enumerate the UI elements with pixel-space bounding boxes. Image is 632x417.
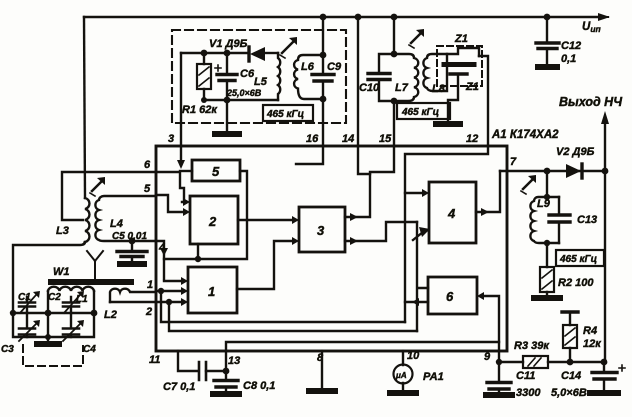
svg-text:Z1: Z1 xyxy=(454,33,468,45)
svg-text:2: 2 xyxy=(208,214,217,229)
svg-text:R1 62к: R1 62к xyxy=(182,104,218,116)
svg-text:9: 9 xyxy=(484,351,491,363)
node rail-L7 xyxy=(391,14,398,21)
piezo Z1 dashed box xyxy=(437,46,482,86)
ground below C12 xyxy=(538,64,557,70)
gang link dashed xyxy=(23,345,83,366)
ground below Z1 xyxy=(436,121,460,127)
svg-text:2: 2 xyxy=(145,306,152,318)
inductor L8 xyxy=(423,54,447,91)
capacitor C7 xyxy=(199,362,206,380)
ground below PA1 xyxy=(390,390,416,396)
ground below C8 xyxy=(213,391,239,397)
svg-text:6: 6 xyxy=(446,289,454,304)
resistor R4 xyxy=(562,310,578,313)
meter PA1 xyxy=(402,351,404,391)
block 6 xyxy=(428,277,477,314)
svg-text:L1: L1 xyxy=(76,294,88,305)
wire block1 to block3 xyxy=(237,241,292,289)
capacitor C11 xyxy=(498,362,500,394)
block 5 xyxy=(192,160,240,181)
465 kHz box B xyxy=(397,103,450,119)
wire L1 right leg xyxy=(93,291,95,313)
svg-text:L6: L6 xyxy=(301,61,315,73)
wire block2 bottom stub xyxy=(197,244,199,259)
wire output arrow xyxy=(604,122,606,171)
svg-text:6: 6 xyxy=(144,159,151,171)
svg-text:V2 Д9Б: V2 Д9Б xyxy=(556,146,595,158)
inductor L3 xyxy=(85,198,89,242)
capacitor C13 xyxy=(558,197,560,243)
svg-text:3300: 3300 xyxy=(516,387,541,399)
svg-text:С7 0,1: С7 0,1 xyxy=(163,381,195,393)
wire L2 bottom to pin2 xyxy=(110,301,156,303)
block 3 xyxy=(299,207,345,252)
capacitor C6 xyxy=(224,50,231,57)
svg-text:1: 1 xyxy=(147,279,153,291)
wire pin9 riser to block6 xyxy=(484,296,499,362)
wire feedback bus2 xyxy=(169,302,417,331)
svg-text:14: 14 xyxy=(342,133,354,145)
inductor L1 xyxy=(48,287,94,291)
inductor L9 xyxy=(546,171,548,197)
wire pin12 riser xyxy=(479,56,488,146)
svg-text:РА1: РА1 xyxy=(423,371,444,383)
svg-text:С11: С11 xyxy=(516,370,535,382)
ground below C14 xyxy=(590,390,618,396)
svg-text:С10: С10 xyxy=(359,82,380,94)
wire pin14 inside xyxy=(358,146,370,174)
wire block2 to block3 xyxy=(238,219,292,221)
wire pin4 inside xyxy=(156,241,164,259)
svg-text:10: 10 xyxy=(407,350,420,362)
trimming arrow L3-L4 xyxy=(92,182,101,191)
svg-text:R2 100: R2 100 xyxy=(558,277,594,289)
node rail-C12 xyxy=(544,14,551,21)
diode V1 xyxy=(247,47,250,61)
resistor R2 xyxy=(546,243,548,296)
svg-text:L8: L8 xyxy=(432,83,446,95)
svg-text:С6: С6 xyxy=(240,68,255,80)
wire pin2 inside xyxy=(156,301,180,303)
capacitor C9 xyxy=(322,17,324,146)
piezo Z1 xyxy=(444,62,474,67)
wire gang top bus xyxy=(13,312,94,314)
node rail-C9 xyxy=(320,14,327,21)
svg-text:μА: μА xyxy=(395,371,407,380)
wire pin9 node line xyxy=(499,361,604,363)
svg-text:1: 1 xyxy=(208,284,215,299)
svg-text:16: 16 xyxy=(306,133,319,145)
wire L3 bottom to gang xyxy=(13,242,85,313)
wire pin6 inside xyxy=(156,172,184,202)
svg-text:12к: 12к xyxy=(583,338,602,350)
svg-text:15: 15 xyxy=(379,133,392,145)
block 1 xyxy=(188,267,237,313)
node rail-pin14 xyxy=(355,14,362,21)
capacitor C1 variable xyxy=(26,297,28,313)
svg-text:4: 4 xyxy=(158,242,165,254)
wire pin7 to diode xyxy=(500,170,605,172)
svg-text:7: 7 xyxy=(510,156,517,168)
inductor L7 xyxy=(394,54,418,101)
wire block3 out lower xyxy=(345,222,417,241)
svg-text:Выход НЧ: Выход НЧ xyxy=(559,95,623,109)
wire feedback bus1 xyxy=(161,291,405,322)
op-amp A1 IC boundary xyxy=(156,146,507,351)
svg-text:12: 12 xyxy=(466,133,478,145)
svg-text:465 кГц: 465 кГц xyxy=(559,254,597,265)
capacitor C10 xyxy=(393,17,395,54)
resistor R1 xyxy=(201,50,208,57)
svg-text:С8 0,1: С8 0,1 xyxy=(243,380,275,392)
svg-text:С9: С9 xyxy=(327,61,342,73)
svg-text:465 кГц: 465 кГц xyxy=(401,107,439,118)
svg-text:R4: R4 xyxy=(583,325,597,337)
wire pin5 inside xyxy=(156,195,182,212)
wire block3 out upper xyxy=(345,146,394,217)
wire rail arrow end xyxy=(600,16,608,18)
svg-text:4: 4 xyxy=(447,206,456,221)
inductor L2 xyxy=(110,289,156,302)
inductor L4 xyxy=(95,196,156,241)
capacitor C8 xyxy=(225,371,227,392)
svg-text:С2: С2 xyxy=(48,292,61,303)
svg-text:С14: С14 xyxy=(561,370,581,382)
wire bus riser to block4 xyxy=(413,222,428,331)
block 4 xyxy=(429,182,476,243)
svg-text:0,1: 0,1 xyxy=(561,53,576,65)
wire block5 wrap to block1 xyxy=(164,171,247,279)
svg-text:L2: L2 xyxy=(104,309,117,321)
svg-text:465 кГц: 465 кГц xyxy=(266,109,304,120)
wire gang bottom bus xyxy=(13,313,94,337)
wire pin3 drop from loop xyxy=(180,53,182,146)
trimming arrow L5-L6 xyxy=(282,42,293,53)
ground pin8 xyxy=(309,388,335,394)
wire output rail right xyxy=(604,171,606,362)
wire pin15 drop xyxy=(393,101,395,146)
capacitor C2 variable xyxy=(70,297,72,313)
wire block4 out to pin7 xyxy=(476,171,500,212)
wire pin3 arrow xyxy=(180,146,182,160)
wire bus pin13 xyxy=(226,342,499,371)
wire supply rail Uip xyxy=(84,16,600,18)
capacitor C3 trimmer xyxy=(26,313,28,337)
wire pin16 inside xyxy=(296,146,323,164)
svg-text:Z1: Z1 xyxy=(465,81,479,93)
trimming arrow L9 xyxy=(523,180,532,189)
wire pin6 tap xyxy=(62,172,156,220)
svg-text:W1: W1 xyxy=(53,266,70,278)
block 2 xyxy=(190,196,238,244)
svg-text:V1 Д9Б: V1 Д9Б xyxy=(209,38,248,50)
ground gang centre xyxy=(47,313,49,342)
svg-text:3: 3 xyxy=(168,133,174,145)
wire block5 left stub xyxy=(180,170,192,172)
wire pin12 arrow into block4 xyxy=(405,192,421,194)
capacitor C14 xyxy=(603,362,605,392)
trimming arrow L7 xyxy=(411,34,420,43)
wire top loop R1-C6-V1-L5 xyxy=(181,52,249,54)
svg-text:L7: L7 xyxy=(395,82,409,94)
svg-text:13: 13 xyxy=(228,355,240,367)
svg-text:11: 11 xyxy=(149,354,160,366)
svg-text:5,0×6В: 5,0×6В xyxy=(551,387,587,399)
wire pin12 inside drop xyxy=(405,146,488,322)
antenna symbol xyxy=(87,251,103,278)
svg-text:С4: С4 xyxy=(83,344,96,355)
svg-text:L5: L5 xyxy=(254,76,268,88)
svg-text:25,0×6В: 25,0×6В xyxy=(226,88,262,98)
inductor L6 xyxy=(294,55,323,99)
svg-text:L3: L3 xyxy=(56,225,69,237)
inductor L5 xyxy=(278,53,280,100)
wire L1 left leg to ground xyxy=(47,291,49,313)
wire pin1 inside xyxy=(156,290,180,292)
IF filter dashed box xyxy=(172,30,346,123)
svg-text:5: 5 xyxy=(144,183,151,195)
svg-text:С5 0,01: С5 0,01 xyxy=(112,231,147,242)
svg-text:3: 3 xyxy=(317,223,325,238)
wire pin14 supply drop xyxy=(357,17,359,146)
wire pin11 drop xyxy=(178,351,197,371)
resistor R3 xyxy=(523,356,548,368)
wire rail left drop xyxy=(84,17,85,198)
ground below C11 xyxy=(486,392,512,398)
svg-text:С3: С3 xyxy=(1,344,14,355)
svg-text:С1: С1 xyxy=(18,292,31,303)
ground below C5 xyxy=(120,261,144,267)
antenna W1 rod xyxy=(51,279,131,285)
465 kHz box A xyxy=(263,105,313,121)
ground below C6 xyxy=(226,100,228,132)
wire pin8 ground xyxy=(321,351,323,390)
capacitor C4 trimmer xyxy=(70,313,72,337)
wire block6 out left xyxy=(405,301,428,303)
svg-text:L9: L9 xyxy=(537,198,551,210)
svg-text:5: 5 xyxy=(212,164,220,179)
capacitor C5 xyxy=(129,238,136,245)
svg-text:С12: С12 xyxy=(561,40,581,52)
465 kHz box C xyxy=(556,250,604,266)
svg-text:С13: С13 xyxy=(577,214,597,226)
diode V2 xyxy=(566,164,581,178)
svg-text:R3 39к: R3 39к xyxy=(514,340,550,352)
capacitor C12 xyxy=(546,17,548,66)
svg-text:А1 К174ХА2: А1 К174ХА2 xyxy=(491,129,559,141)
svg-text:L4: L4 xyxy=(110,218,123,230)
wire loop bottom xyxy=(204,99,278,101)
ground below R2 xyxy=(534,295,560,301)
